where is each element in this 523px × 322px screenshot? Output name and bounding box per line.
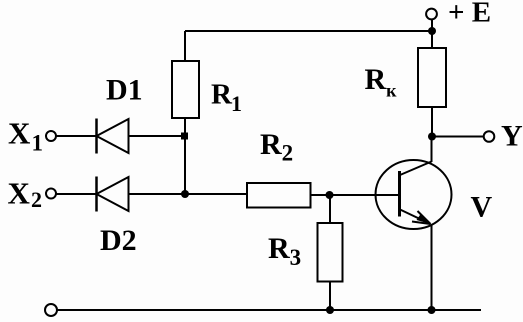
svg-text:R2: R2 [260, 128, 293, 166]
wire R3 bottom lead [329, 282, 331, 311]
svg-text:R1: R1 [211, 79, 242, 117]
node junction +E [428, 27, 436, 35]
resistor R1 [172, 61, 199, 118]
wire Rk top lead [431, 20, 433, 49]
svg-text:X: X [8, 116, 31, 151]
resistor R2 [247, 183, 311, 208]
wire emitter down to rail [431, 225, 433, 310]
terminal +E [426, 9, 437, 20]
svg-text:D1: D1 [106, 74, 143, 107]
svg-text:2: 2 [31, 187, 42, 212]
node junction R2-R3 [326, 191, 334, 199]
wire R2 to base [311, 194, 400, 196]
svg-text:V: V [471, 191, 493, 224]
terminal X1 [46, 131, 56, 141]
wire bottom rail [57, 309, 481, 311]
terminal X2 [46, 189, 56, 199]
svg-text:Rк: Rк [365, 63, 398, 101]
node junction D1-R1 [181, 133, 188, 140]
transistor V [376, 160, 452, 229]
diode D2 [97, 177, 129, 212]
wire Rk bottom lead [431, 107, 433, 137]
resistor R3 [318, 223, 343, 282]
wire X1 input [56, 135, 185, 137]
wire top rail from R1 to +E node [185, 30, 432, 32]
svg-text:1: 1 [32, 131, 44, 156]
svg-text:X: X [8, 176, 31, 211]
svg-text:+ E: + E [448, 0, 491, 29]
wire output to Y [432, 136, 484, 138]
svg-text:R3: R3 [268, 232, 301, 270]
wire R1 bottom lead down to X2 row [184, 118, 186, 195]
node junction R3-rail [326, 306, 334, 314]
svg-text:D2: D2 [100, 224, 137, 257]
terminal Y [484, 131, 495, 142]
terminal bottom-left [45, 304, 57, 316]
wire R1 top lead [184, 31, 186, 62]
node junction X2 row [181, 190, 189, 198]
wire R3 top lead [329, 195, 331, 223]
wire collector up to node [431, 137, 433, 163]
resistor Rk [418, 48, 446, 107]
node junction collector-Y [428, 133, 436, 141]
wire X2 input to R2 [56, 193, 247, 195]
node junction emitter-rail [428, 306, 436, 314]
svg-text:Y: Y [501, 120, 523, 153]
diode D1 [97, 119, 129, 154]
